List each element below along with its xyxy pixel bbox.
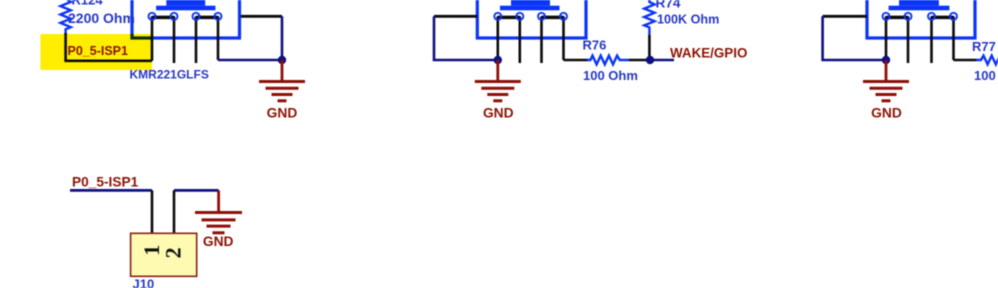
svg-text:R124: R124 (72, 0, 104, 8)
switch S3 contact bar pins 3-4 (932, 16, 954, 20)
svg-text:2200 Ohm: 2200 Ohm (68, 10, 135, 26)
svg-text:100 Ohm: 100 Ohm (974, 68, 998, 83)
wire (navy) down right side of S1 (281, 16, 284, 60)
ground GND2 bar4 (493, 99, 502, 102)
switch S2 pin circle 3 (538, 13, 545, 20)
switch S3 side pin wire (black) from box left edge (823, 15, 867, 18)
ground GND2 stem (496, 60, 499, 82)
wire (navy) J10 pin2 to GND4 (174, 189, 219, 192)
wire (navy) from S1 pin4 to junction (218, 59, 282, 62)
ground GND1 bar3 (272, 93, 293, 96)
switch S2 contact bar pins 1-2 (498, 16, 520, 20)
svg-text:GND: GND (483, 106, 514, 121)
switch S3 pin circle 2 (905, 13, 912, 20)
switch S1 pin circle 3 (193, 13, 200, 20)
switch S1 plunger flange (156, 6, 215, 11)
resistor R76 (587, 56, 629, 65)
resistor R74 (644, 0, 654, 35)
ground GND3 stem (885, 60, 888, 82)
ground GND2 bar3 (487, 93, 508, 96)
svg-text:WAKE/GPIO: WAKE/GPIO (670, 45, 747, 60)
junction node at GND2 (494, 56, 502, 64)
svg-text:R76: R76 (583, 37, 607, 52)
wire (black) R74 lead down to junction (648, 35, 651, 58)
switch S3 pin 1 (885, 16, 888, 60)
svg-text:GND: GND (267, 106, 298, 121)
wire (navy) left loop of S3 (823, 16, 886, 60)
wire (black) S2 pin4 to R76 (564, 59, 589, 62)
switch S3 body outline (867, 0, 975, 38)
switch S2 side pin wire (black) from box left edge (434, 15, 477, 18)
switch S2 pin 4 (562, 16, 565, 60)
switch S1 contact bar pins 1-2 (152, 16, 174, 20)
ground GND3 bar4 (882, 99, 891, 102)
wire (black) S3 pin4 to R77 (954, 59, 978, 62)
switch S1 contact bar pins 3-4 (196, 16, 218, 20)
ground GND1 bar4 (278, 99, 287, 102)
switch S2 plunger cap (511, 0, 550, 6)
switch S2 pin 2 (518, 16, 521, 63)
wire (black) R76 to junction (629, 59, 650, 62)
switch S2 pin circle 1 (494, 13, 501, 20)
ground GND2 bar2 (481, 87, 514, 90)
ground GND1 bar1 (259, 80, 305, 83)
svg-text:2: 2 (161, 247, 186, 258)
switch S2 pin 3 (540, 16, 543, 63)
switch S1 pin 2 (173, 16, 176, 63)
switch S2 body outline (477, 0, 586, 38)
switch S1 body outline (132, 0, 240, 38)
svg-text:GND: GND (871, 106, 902, 121)
connector J10 pin 1 lead (151, 190, 154, 233)
ground GND4 bar2 (202, 218, 236, 221)
switch S3 plunger flange (889, 6, 950, 11)
ground GND1 bar2 (266, 87, 299, 90)
junction node at GND1 (278, 56, 286, 64)
wire (navy) junction to WAKE/GPIO (650, 59, 674, 62)
switch S1 plunger cap (166, 0, 205, 6)
ground GND4 stem (217, 190, 220, 212)
svg-text:P0_5-ISP1: P0_5-ISP1 (72, 175, 139, 190)
switch S3 pin 3 (930, 16, 933, 63)
switch S1 side pin wire (black) from box right edge (241, 15, 282, 18)
switch S3 pin circle 1 (883, 13, 890, 20)
ground GND3 bar3 (876, 93, 897, 96)
switch S3 pin 4 (952, 16, 955, 60)
switch S1 pin 1 (151, 16, 154, 61)
switch S3 plunger cap (899, 0, 939, 6)
switch S1 pin 3 (195, 16, 198, 63)
connector J10 body (131, 233, 197, 276)
ground GND1 stem (281, 60, 284, 82)
switch S1 pin circle 2 (171, 13, 178, 20)
ground GND4 bar3 (207, 225, 231, 228)
junction node at GND3 (882, 56, 890, 64)
ground GND2 bar1 (475, 80, 521, 83)
wire (navy) net P0_5-ISP1 to J10 pin1 (70, 189, 152, 192)
switch S2 contact bar pins 3-4 (542, 16, 564, 20)
switch S2 pin circle 4 (560, 13, 567, 20)
svg-text:GND: GND (203, 234, 234, 249)
switch S3 pin 2 (907, 16, 910, 63)
highlight rectangle (multiply) (41, 34, 153, 70)
junction node WAKE (646, 56, 654, 64)
switch S2 pin circle 2 (516, 13, 523, 20)
svg-text:J10: J10 (133, 277, 155, 288)
switch S2 plunger flange (500, 6, 560, 11)
wire (navy) left loop of S2 (434, 16, 498, 60)
switch S2 pin 1 (496, 16, 499, 60)
connector J10 pin 2 lead (173, 190, 176, 233)
svg-text:100K Ohm: 100K Ohm (657, 13, 719, 27)
switch S3 pin circle 4 (950, 13, 957, 20)
ground GND4 bar1 (195, 211, 242, 214)
ground GND3 bar1 (863, 80, 909, 83)
resistor R77 (clipped at right edge) (976, 56, 998, 65)
svg-text:100 Ohm: 100 Ohm (583, 68, 638, 83)
switch S3 contact bar pins 1-2 (886, 16, 908, 20)
svg-text:R74: R74 (656, 0, 681, 11)
wire from R124 to switch S1 pin1 (net P0_5-ISP1) (66, 33, 152, 61)
ground GND4 bar4 (213, 231, 225, 234)
switch S1 pin 4 (217, 16, 220, 60)
switch S3 pin circle 3 (928, 13, 935, 20)
switch S1 pin circle 1 (149, 13, 156, 20)
svg-text:R77: R77 (972, 39, 996, 54)
resistor R124 (60, 0, 70, 34)
ground GND3 bar2 (870, 87, 903, 90)
switch S1 pin circle 4 (215, 13, 222, 20)
